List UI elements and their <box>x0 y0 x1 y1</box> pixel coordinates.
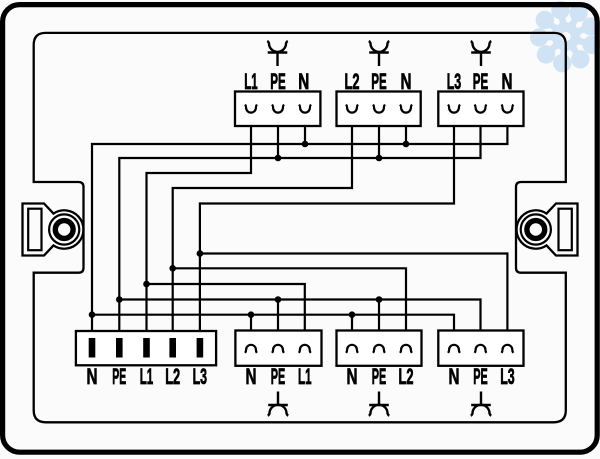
svg-text:PE: PE <box>371 69 387 94</box>
node feed L2 branch <box>169 265 176 272</box>
svg-text:L1: L1 <box>298 364 312 389</box>
svg-text:N: N <box>298 69 309 94</box>
node C.PE <box>275 296 282 303</box>
svg-text:L3: L3 <box>447 69 462 94</box>
wire L1 lower branch to C L1 <box>147 284 305 344</box>
wire PE upper bus: feed PE up, across, to B3 PE <box>119 113 480 338</box>
terminal block B3 (top right) <box>438 92 523 127</box>
wire PE lower bus to C D E <box>119 300 480 345</box>
wire C PE drop <box>277 300 279 345</box>
node B1.N <box>302 141 309 148</box>
wire C N drop <box>250 315 252 344</box>
socket symbol below D <box>369 392 390 416</box>
svg-text:L2: L2 <box>165 364 180 389</box>
svg-text:PE: PE <box>270 69 286 94</box>
terminal block B2 (top middle) <box>337 92 421 127</box>
svg-text:L3: L3 <box>193 364 208 389</box>
svg-text:PE: PE <box>112 364 126 389</box>
wire L1 upper: feed L1 to B1 L1 <box>147 113 252 338</box>
terminal block D (bottom, circuit 2) <box>337 331 422 366</box>
wire L2 upper: feed L2 to B2 L2 <box>173 113 352 338</box>
svg-text:L3: L3 <box>500 364 515 389</box>
svg-text:N: N <box>87 364 98 389</box>
feed terminal block (bottom left) <box>76 331 216 365</box>
svg-text:N: N <box>401 69 412 94</box>
node B2.PE <box>376 155 383 162</box>
watermark logo <box>530 0 600 74</box>
wire N lower bus to C D E <box>92 315 454 344</box>
svg-text:L2: L2 <box>345 69 360 94</box>
svg-text:N: N <box>246 364 257 389</box>
node feed PE branch <box>116 296 123 303</box>
svg-text:L1: L1 <box>244 69 258 94</box>
node D.N <box>349 311 356 318</box>
wire D PE drop <box>378 300 380 345</box>
svg-text:PE: PE <box>271 364 286 389</box>
wire B2 PE drop <box>378 113 380 158</box>
svg-text:PE: PE <box>473 69 489 94</box>
wire B1 PE drop <box>277 113 279 158</box>
terminal block E (bottom, circuit 3) <box>438 331 523 366</box>
wire D N drop <box>351 315 353 344</box>
wire N upper bus: feed N up, across, to B3 N <box>92 113 507 338</box>
svg-text:L2: L2 <box>399 364 414 389</box>
wire B1 N drop <box>304 113 306 144</box>
svg-text:L1: L1 <box>140 364 154 389</box>
right mounting latch <box>517 204 578 256</box>
wire L3 lower branch to E L3 <box>200 254 508 345</box>
node feed L3 branch <box>197 250 204 257</box>
wire B2 N drop <box>405 113 407 144</box>
terminal block B1 (top left) <box>235 92 320 127</box>
svg-text:PE: PE <box>473 364 488 389</box>
svg-text:N: N <box>502 69 513 94</box>
svg-text:N: N <box>347 364 358 389</box>
node B1.PE <box>275 155 282 162</box>
node feed N branch <box>89 311 96 318</box>
svg-text:N: N <box>449 364 460 389</box>
junction dots <box>89 141 410 318</box>
node D.PE <box>376 296 383 303</box>
socket symbol below C <box>268 392 289 416</box>
socket symbol above B1 <box>267 41 288 66</box>
svg-text:PE: PE <box>372 364 387 389</box>
enclosure inner wall <box>34 33 566 422</box>
left mounting latch <box>23 204 84 256</box>
node feed L1 branch <box>143 281 150 288</box>
wire L2 lower branch to D L2 <box>173 268 406 344</box>
node B2.N <box>403 141 410 148</box>
socket symbol above B3 <box>471 41 492 66</box>
node C.N <box>248 311 255 318</box>
socket symbol above B2 <box>369 41 390 66</box>
wire L3 upper: feed L3 to B3 L3 <box>200 113 454 338</box>
socket symbol below E <box>471 392 492 416</box>
terminal block C (bottom, circuit 1) <box>235 331 321 366</box>
